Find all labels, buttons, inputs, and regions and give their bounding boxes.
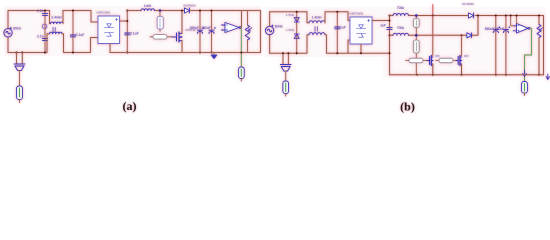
junction dots X-cap (a) xyxy=(44,10,46,54)
capacitor C3 0.1uF (a) xyxy=(125,33,130,35)
wire Q1 drain (a) xyxy=(181,11,183,53)
svg-text:1mH: 1mH xyxy=(144,4,152,8)
potentiometer R2 (a) xyxy=(245,11,252,53)
node X-cap branch (b) xyxy=(336,12,338,54)
ground stack (b) xyxy=(280,53,291,96)
inductor L1a choke top 2.4mH xyxy=(51,22,64,24)
wire bridge DC+ elbow (b) xyxy=(372,20,390,22)
svg-text:(b): (b) xyxy=(400,100,415,114)
wire choke top lead (a) xyxy=(50,11,51,24)
earth funnel symbol (a) xyxy=(14,64,25,71)
node Q3 drain on line B (b) xyxy=(461,34,463,36)
wire choke bottom out (b) xyxy=(325,35,350,54)
capacitor C4 1uF (b) xyxy=(335,27,340,29)
node input feed dots (b) xyxy=(510,15,518,17)
sensor box lower (b) xyxy=(413,35,419,74)
node DC cap branch (a) xyxy=(126,11,128,53)
green probe wire (a) xyxy=(240,28,242,67)
wire choke bottom out (a) xyxy=(62,34,98,53)
node X-cap branch (a) xyxy=(44,11,46,53)
junction dots C4 (b) xyxy=(336,11,338,55)
capacitor Cx2 2.2n (a) xyxy=(42,39,47,41)
node Q1 drain dot (a) xyxy=(181,10,183,12)
svg-text:2.2n: 2.2n xyxy=(37,34,44,38)
junction dots C3 (a) xyxy=(126,10,128,54)
wire right edge (b) xyxy=(543,16,545,75)
wire bottom rail (b) xyxy=(270,52,307,54)
node output cap2 branch (b) xyxy=(505,16,507,75)
diode D2b TVS (b) xyxy=(294,34,299,39)
op-amp U2 (a) xyxy=(222,23,241,33)
resistor Rg1 (b) xyxy=(406,58,428,62)
op-amp U4 (b) xyxy=(513,24,530,34)
junction dots X-cap2 (a) xyxy=(72,10,74,54)
transistor Q2 MOSFET (b) xyxy=(427,56,433,66)
earth element box (a) xyxy=(17,71,23,103)
wire line A (b) xyxy=(409,15,544,17)
svg-text:700u: 700u xyxy=(397,26,405,30)
plus mark bridge (a) xyxy=(116,18,118,20)
tint wash b1 xyxy=(265,7,383,57)
svg-text:560uF: 560uF xyxy=(485,27,495,31)
wire line B lead (b) xyxy=(390,34,394,36)
svg-text:0.1uF: 0.1uF xyxy=(76,33,85,37)
sensor box upper (b) xyxy=(413,16,419,36)
inductor L5 700u line B (b) xyxy=(393,33,409,35)
junction dots TVS (b) xyxy=(296,11,298,55)
svg-text:450uF: 450uF xyxy=(190,26,200,30)
node output cap1 (a) xyxy=(199,11,201,53)
capacitor Co3 560uF (b) xyxy=(493,26,500,32)
svg-text:1.5KE: 1.5KE xyxy=(286,13,294,17)
transistor Q3 MOSFET (b) xyxy=(456,56,462,66)
wire bottom rail right (a) xyxy=(110,52,261,54)
resistor Rg gate (a) xyxy=(150,35,172,39)
svg-text:700u: 700u xyxy=(397,6,405,10)
wire bridge DC- (b) xyxy=(360,44,362,53)
node TVS branch (b) xyxy=(296,12,298,54)
capacitor C2 0.1uF (a) xyxy=(70,35,75,37)
diode D3 line A (b) xyxy=(469,13,474,18)
capacitor C5 (b) xyxy=(387,28,392,30)
wire source leads (a) xyxy=(7,11,9,53)
capacitor Co2 450uF (a) xyxy=(209,27,216,33)
node bridge DC- dot (b) xyxy=(360,52,362,54)
wire line B (b) xyxy=(409,16,479,36)
bridge diodes inside (b) xyxy=(356,25,365,37)
node earth stubs (a) xyxy=(16,52,24,54)
wire top rail (b) xyxy=(270,11,307,13)
svg-text:IRF: IRF xyxy=(435,54,440,58)
inductor L3b choke bottom (b) xyxy=(309,33,325,35)
wire Q3 source (b) xyxy=(461,64,463,75)
green output wire (b) xyxy=(525,28,532,81)
battery element (b) xyxy=(522,82,528,96)
load resistor R3 (b) xyxy=(537,16,543,75)
node ground stub dots (b) xyxy=(282,52,289,54)
tint wash b2 xyxy=(383,7,546,77)
node green probe (a) xyxy=(240,52,242,54)
svg-text:(a): (a) xyxy=(123,99,137,113)
svg-text:560uF: 560uF xyxy=(495,27,505,31)
choke core lines (a) xyxy=(53,27,55,31)
wire Q2 source (b) xyxy=(432,64,434,75)
wire top rail right (a) xyxy=(127,11,260,53)
wire bottom DC rail (b) xyxy=(390,74,544,76)
svg-text:KBPC806: KBPC806 xyxy=(97,11,111,15)
junction dots DC split (b) xyxy=(389,15,391,55)
wire bottom rail to DC drop (b) xyxy=(348,16,390,75)
bridge rectifier U1 box (a) xyxy=(98,16,120,44)
capacitor Co4 560uF (b) xyxy=(503,26,510,32)
svg-text:IRF: IRF xyxy=(464,54,469,58)
tint wash a xyxy=(4,6,262,56)
svg-text:1.4mH: 1.4mH xyxy=(312,15,323,19)
node diode merge (b) xyxy=(477,15,479,17)
inductor L3a choke top 1.4mH (b) xyxy=(309,21,325,23)
svg-text:1uF: 1uF xyxy=(380,24,386,28)
AC source V1 60Hz (a) xyxy=(4,27,12,37)
inductor L2 boost 1mH (a) xyxy=(141,9,155,11)
coupling symbol K (a) xyxy=(42,24,47,29)
ground symbol output (a) xyxy=(211,53,217,59)
diode D4 line B (b) xyxy=(467,33,472,38)
wire choke top out (b) xyxy=(325,12,350,23)
blue down arrow corner (b) xyxy=(546,74,549,80)
wire bridge DC- to bottom rail (a) xyxy=(109,44,111,53)
svg-text:KBPC806: KBPC806 xyxy=(350,12,364,16)
diode D2a TVS (b) xyxy=(294,18,299,23)
svg-text:MUR860: MUR860 xyxy=(184,4,196,8)
svg-text:450uF: 450uF xyxy=(201,26,211,30)
junction dots sensors (b) xyxy=(415,14,418,36)
wire earth stubs (a) xyxy=(17,53,23,65)
wire choke top out (a) xyxy=(63,11,98,24)
wire source leads (b) xyxy=(269,12,271,54)
junction dots output caps (a) xyxy=(199,10,213,54)
inductor L1b choke bottom xyxy=(50,32,63,34)
diode D1 boost (a) xyxy=(185,8,190,13)
wire choke bottom lead (a) xyxy=(47,34,50,53)
wire line A lead (b) xyxy=(390,15,394,17)
node boost junction (a) xyxy=(159,9,162,12)
resistor Rg2 (b) xyxy=(436,58,457,62)
junction dots output (b) xyxy=(416,15,507,76)
node output cap2 (a) xyxy=(211,11,213,53)
svg-text:0.1uF: 0.1uF xyxy=(130,31,139,35)
svg-text:1uF: 1uF xyxy=(340,25,346,29)
red probe stub Q2 drain (b) xyxy=(432,5,434,16)
transistor Q1 MOSFET (a) xyxy=(172,32,182,42)
node load top (b) xyxy=(538,15,540,76)
svg-text:1.5KE: 1.5KE xyxy=(286,28,294,32)
svg-text:MUR860: MUR860 xyxy=(462,2,474,6)
svg-text:2.2n: 2.2n xyxy=(37,9,44,13)
plus mark bridge (b) xyxy=(368,19,370,21)
battery element (a) xyxy=(239,67,245,81)
wire op-amp input feeds (b) xyxy=(511,16,517,26)
svg-text:60Hz: 60Hz xyxy=(13,27,21,31)
wire bottom rail left (a) xyxy=(8,52,47,54)
inductor L4 700u line A (b) xyxy=(393,14,409,16)
wire choke bottom lead (b) xyxy=(307,35,309,54)
choke core lines (b) xyxy=(315,27,317,32)
wire Q3 drain (b) xyxy=(461,35,463,55)
bridge diodes inside (a) xyxy=(104,24,113,36)
wire top rail left (a) xyxy=(8,10,50,12)
capacitor Cx1 2.2n (a) xyxy=(42,14,47,16)
wire op-amp output riser (a) xyxy=(240,11,243,28)
node X-cap2 branch (a) xyxy=(72,11,74,53)
capacitor Co1 450uF (a) xyxy=(197,27,204,33)
AC source V2 60Hz (b) xyxy=(265,25,273,35)
svg-text:60Hz: 60Hz xyxy=(275,24,283,28)
node output cap1 branch (b) xyxy=(495,16,497,75)
sense element box (a) xyxy=(157,11,163,32)
blue probe arrow on green (b) xyxy=(523,70,527,77)
svg-text:2.4mH: 2.4mH xyxy=(52,16,63,20)
wire Q2 drain (b) xyxy=(432,16,434,56)
wire choke top lead (b) xyxy=(307,12,309,23)
wire bridge DC+ elbow (a) xyxy=(120,20,128,22)
bridge rectifier U3 box (b) xyxy=(350,17,372,44)
node Q2 drain on line A (b) xyxy=(432,15,434,17)
